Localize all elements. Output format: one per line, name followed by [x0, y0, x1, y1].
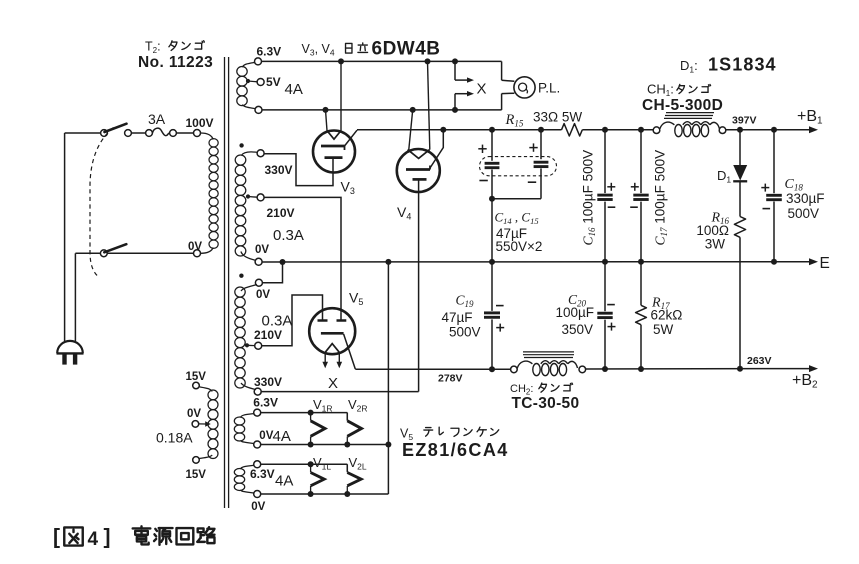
- svg-text:15V: 15V: [186, 469, 207, 481]
- svg-text:6.3V: 6.3V: [257, 45, 282, 59]
- svg-text:0V: 0V: [256, 289, 270, 301]
- svg-text:X: X: [477, 80, 487, 97]
- svg-text:330V: 330V: [254, 375, 282, 389]
- svg-text:210V: 210V: [267, 206, 295, 220]
- svg-text:0.18A: 0.18A: [156, 429, 193, 445]
- svg-text:330µF: 330µF: [786, 191, 825, 206]
- svg-text:X: X: [328, 375, 338, 392]
- svg-text:397V: 397V: [732, 114, 757, 126]
- svg-text:6.3V: 6.3V: [250, 467, 275, 481]
- svg-text:D1:: D1:: [680, 58, 698, 75]
- svg-text:350V: 350V: [562, 322, 594, 337]
- svg-text:CH1:: CH1:: [647, 82, 674, 99]
- svg-text:3W: 3W: [705, 237, 726, 252]
- svg-text:3A: 3A: [148, 111, 166, 127]
- svg-text:4A: 4A: [273, 428, 291, 445]
- svg-text:5W: 5W: [653, 322, 674, 337]
- svg-text:15V: 15V: [186, 371, 207, 383]
- svg-text:62kΩ: 62kΩ: [651, 307, 683, 322]
- svg-text:500V: 500V: [788, 206, 820, 221]
- svg-text:6.3V: 6.3V: [253, 396, 278, 410]
- svg-text:E: E: [820, 255, 830, 272]
- svg-text:4: 4: [88, 529, 99, 550]
- svg-text:0V: 0V: [188, 241, 202, 253]
- svg-text:[: [: [53, 526, 60, 549]
- svg-text:33Ω 5W: 33Ω 5W: [533, 110, 582, 125]
- svg-text:0.3A: 0.3A: [273, 227, 304, 244]
- svg-text:0V: 0V: [187, 408, 201, 420]
- svg-text:TC-30-50: TC-30-50: [512, 395, 580, 412]
- svg-text:0V: 0V: [251, 501, 265, 513]
- svg-text:4A: 4A: [285, 81, 303, 98]
- svg-text:263V: 263V: [747, 355, 772, 367]
- svg-text:No. 11223: No. 11223: [138, 54, 213, 71]
- svg-text:100V: 100V: [186, 116, 214, 130]
- svg-text:210V: 210V: [254, 328, 282, 342]
- svg-text:0V: 0V: [255, 244, 269, 256]
- svg-text:]: ]: [104, 526, 111, 549]
- svg-text:4A: 4A: [275, 473, 293, 490]
- svg-text:5V: 5V: [266, 75, 281, 89]
- svg-text:330V: 330V: [265, 163, 293, 177]
- svg-text:47µF: 47µF: [442, 310, 473, 325]
- svg-text:550V×2: 550V×2: [496, 239, 543, 254]
- svg-text:500V: 500V: [449, 325, 481, 340]
- svg-text:100µF: 100µF: [556, 305, 595, 320]
- svg-text:V3, V4: V3, V4: [302, 42, 335, 58]
- svg-text:EZ81/6CA4: EZ81/6CA4: [402, 440, 509, 460]
- svg-text:CH-5-300D: CH-5-300D: [642, 97, 723, 114]
- svg-text:1S1834: 1S1834: [708, 54, 777, 74]
- svg-text:6DW4B: 6DW4B: [372, 38, 441, 59]
- svg-text:278V: 278V: [438, 373, 463, 385]
- svg-text:P.L.: P.L.: [538, 80, 560, 95]
